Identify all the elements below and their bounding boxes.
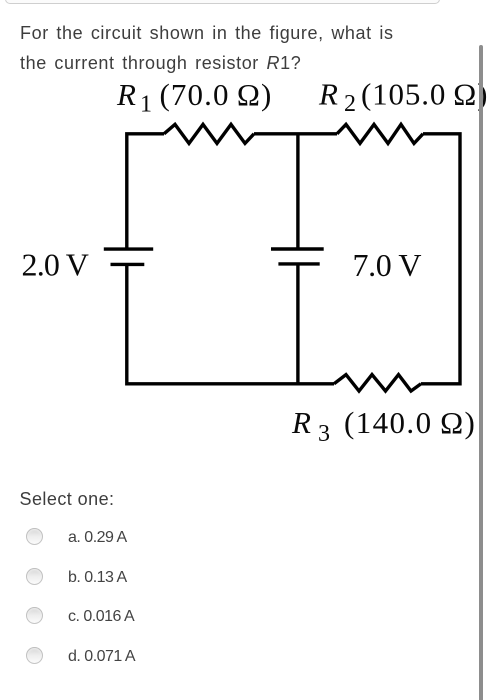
option a text	[68, 529, 127, 547]
wire: top-left corner (left vertical upper + top wire to R1)	[127, 134, 164, 249]
card bottom edge (top of page)	[5, 0, 440, 4]
wire: bottom wire to bottom-left corner + left vertical lower	[127, 264, 334, 383]
wire: top-right corner + right side down + bottom to R3	[421, 134, 460, 384]
option c text	[68, 608, 134, 626]
select one prompt	[20, 489, 115, 510]
svg-text:2: 2	[344, 91, 356, 117]
wire: top middle segment (node B junction)	[254, 132, 337, 135]
battery V2 top plate (long)	[271, 247, 324, 250]
resistor R3	[334, 375, 421, 391]
radio c	[26, 607, 43, 624]
radio a	[26, 528, 43, 545]
resistor R2	[337, 124, 423, 143]
option b text	[68, 569, 127, 587]
svg-text:(70.0 Ω): (70.0 Ω)	[160, 77, 273, 112]
option d text	[68, 648, 135, 666]
svg-text:(105.0 Ω): (105.0 Ω)	[361, 77, 487, 112]
battery V1 top plate (long)	[104, 247, 153, 250]
svg-text:R: R	[116, 77, 136, 112]
wire: middle vertical lower (battery V2 to bottom node)	[296, 264, 299, 384]
circuit figure	[0, 0, 487, 460]
svg-text:2.0 V: 2.0 V	[22, 247, 89, 283]
radio d	[26, 647, 43, 664]
radio b	[26, 568, 43, 585]
resistor R1	[164, 124, 254, 143]
svg-text:R: R	[291, 405, 311, 440]
svg-text:R: R	[318, 77, 338, 112]
battery V1 bottom plate (short)	[111, 263, 145, 266]
svg-text:7.0 V: 7.0 V	[353, 247, 422, 283]
scrollbar thumb	[479, 45, 483, 700]
battery V2 bottom plate (short)	[278, 262, 319, 265]
wire: middle vertical upper (node B to battery V2)	[296, 134, 299, 249]
svg-text:1: 1	[140, 92, 152, 118]
svg-text:(140.0 Ω): (140.0 Ω)	[344, 405, 476, 440]
svg-text:3: 3	[318, 421, 330, 447]
question text	[20, 19, 450, 78]
